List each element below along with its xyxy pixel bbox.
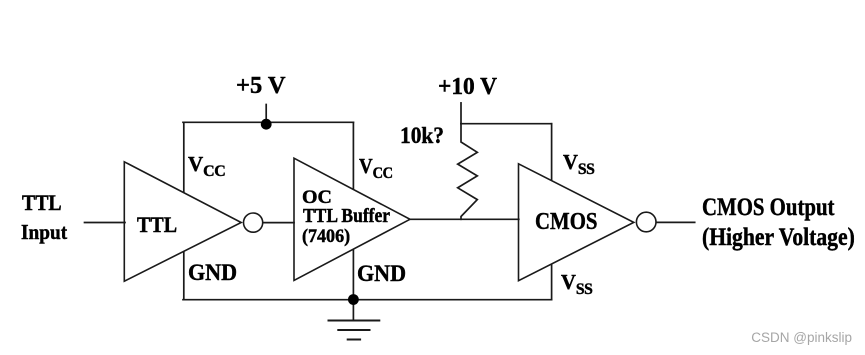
wire +5V stub: [265, 105, 267, 125]
label 10k? resistor value: [400, 125, 444, 149]
label +5 V: [236, 74, 286, 99]
wire U2 output to U3 input node: [410, 218, 519, 220]
label +10 V: [438, 75, 497, 100]
inverter U3 CMOS triangle: [519, 164, 634, 281]
ground symbol bar 1: [329, 320, 380, 322]
label CMOS inside U3: [535, 210, 597, 235]
label TTL Buffer: [303, 206, 390, 226]
label TTL inside U1: [137, 214, 177, 236]
label TTL Input line 1: [22, 192, 62, 214]
wire U1 bubble to U2: [263, 222, 294, 224]
inverter bubble U1: [244, 213, 263, 232]
junction dot ground node: [348, 294, 359, 305]
junction dot +5V node: [261, 119, 272, 130]
label Vss bottom: [561, 272, 592, 298]
label Vcc right: [359, 156, 393, 182]
resistor R1 10k zigzag: [458, 124, 478, 220]
label Vcc left: [188, 154, 225, 180]
inverter U1 TTL triangle: [124, 162, 241, 281]
label Vss top: [563, 152, 594, 178]
ground symbol bar 2: [338, 329, 369, 331]
ground symbol bar 3: [348, 339, 360, 341]
wire right vertical rail to CMOS Vss: [551, 124, 553, 300]
label GND left: [188, 261, 237, 284]
watermark CSDN @pinkslip: [751, 330, 852, 345]
label TTL Input line 2: [21, 222, 67, 243]
wire +5V top rail: [183, 121, 353, 123]
label GND right: [357, 262, 406, 285]
label (7406): [302, 227, 350, 246]
wire vcc-gnd left vertical rail: [183, 122, 185, 299]
label (Higher Voltage): [702, 225, 855, 250]
buffer U2 OC TTL 7406 triangle: [294, 158, 410, 280]
wire ground stub: [352, 300, 354, 321]
label CMOS Output: [702, 195, 834, 220]
wire +10V stub: [460, 103, 462, 124]
wire ground bottom rail: [183, 299, 552, 301]
wire +10V top-right horizontal: [461, 123, 552, 125]
wire TTL input: [85, 222, 126, 224]
label OC: [302, 188, 332, 207]
wire vcc-gnd mid vertical rail: [352, 122, 354, 299]
inverter bubble U3: [636, 212, 656, 232]
wire CMOS output: [656, 221, 695, 223]
